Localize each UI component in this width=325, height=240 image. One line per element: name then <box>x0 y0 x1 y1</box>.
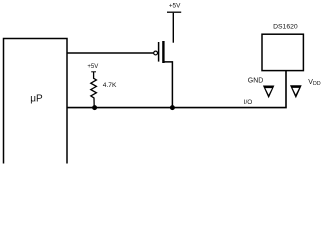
power +5V bar (resistor) <box>91 71 96 73</box>
DS1620 box U2 <box>262 34 303 70</box>
junction dot at Q1 source <box>170 105 175 110</box>
svg-text:4.7K: 4.7K <box>103 82 117 89</box>
svg-text:DS1620: DS1620 <box>273 23 298 30</box>
wire drain of Q1 up to +5V <box>172 13 174 43</box>
junction dot at R1 <box>92 105 97 110</box>
pin symbol GND triangle <box>263 86 275 99</box>
transistor Q1 gate plate <box>158 42 160 62</box>
power +5V bar (top) <box>167 11 181 13</box>
transistor Q1 channel plate <box>162 41 164 63</box>
wire gate from uP to Q1 <box>67 52 154 54</box>
wire source of Q1 down to I/O net <box>163 62 172 108</box>
svg-text:μP: μP <box>30 94 43 105</box>
wire I/O net from uP to DS1620 <box>67 70 286 107</box>
microprocessor box U-uP <box>4 39 68 164</box>
svg-text:VDD: VDD <box>308 79 321 87</box>
svg-text:GND: GND <box>248 78 264 85</box>
svg-text:+5V: +5V <box>87 64 98 70</box>
transistor Q1 gate bubble <box>154 51 158 55</box>
resistor R1 4.7K zigzag <box>91 72 97 108</box>
svg-text:+5V: +5V <box>169 3 181 10</box>
svg-text:I/O: I/O <box>244 99 253 106</box>
pin symbol VDD triangle <box>290 85 302 98</box>
